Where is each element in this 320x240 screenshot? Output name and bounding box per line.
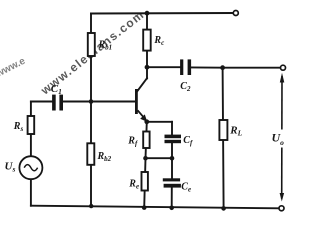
wire top rail bbox=[91, 12, 233, 15]
capacitor Cf plates bbox=[165, 135, 182, 144]
svg-text:Rs: Rs bbox=[13, 121, 24, 133]
label Uo background bbox=[271, 130, 285, 148]
capacitor C1 plates bbox=[52, 95, 63, 111]
svg-text:C2: C2 bbox=[180, 81, 191, 93]
wire Cf top lead bbox=[171, 122, 173, 135]
resistor Rb2 bbox=[87, 143, 94, 165]
resistor RL bbox=[219, 120, 227, 140]
wire base horizontal bbox=[64, 101, 136, 103]
wire mid junction horizontal bbox=[146, 157, 173, 159]
svg-text:Re: Re bbox=[128, 179, 139, 191]
wire left vertical bottom bbox=[30, 179, 32, 206]
wire bottom rail bbox=[31, 206, 279, 209]
terminal top right bbox=[233, 11, 238, 16]
wire emitter branch Rf bbox=[146, 122, 147, 158]
transistor V base bar bbox=[135, 89, 138, 114]
resistor Rs bbox=[28, 116, 35, 134]
wire collector vertical bbox=[146, 13, 148, 78]
wire left vertical top bbox=[30, 102, 32, 157]
capacitor Ce plates bbox=[163, 178, 181, 187]
terminal output bottom bbox=[279, 206, 284, 211]
resistor Rf bbox=[143, 132, 149, 149]
wire RL node to output terminal bbox=[223, 67, 281, 69]
svg-text:Rf: Rf bbox=[127, 136, 138, 148]
voltage arrow line U bbox=[281, 76, 283, 199]
wire Ce bottom lead bbox=[171, 188, 173, 208]
svg-text:Rb2: Rb2 bbox=[97, 151, 112, 163]
wire emitter node right bbox=[147, 121, 172, 123]
wire RL branch vertical bbox=[223, 68, 224, 209]
capacitor C2 plates bbox=[180, 59, 191, 75]
wire C2 to RL node bbox=[191, 66, 222, 68]
svg-text:Us: Us bbox=[5, 161, 16, 174]
wire Rb branch vertical bbox=[90, 14, 92, 207]
resistor Rc bbox=[143, 30, 151, 51]
resistor Re bbox=[142, 172, 148, 191]
svg-text:Cf: Cf bbox=[183, 135, 193, 147]
svg-text:RL: RL bbox=[229, 125, 242, 138]
wire collector node to C2 bbox=[147, 66, 180, 68]
wire collector diagonal bbox=[137, 78, 147, 91]
source sine wave bbox=[24, 165, 37, 171]
wire Ce top lead bbox=[171, 158, 173, 178]
terminal output top bbox=[281, 65, 286, 70]
svg-text:www.e: www.e bbox=[0, 55, 28, 80]
voltage arrow head up bbox=[280, 73, 285, 83]
resistor Rb1 bbox=[88, 33, 95, 56]
wire Rf to Re to rail bbox=[144, 158, 145, 208]
transistor emitter diagonal with arrow bbox=[138, 110, 148, 122]
wire Cf bottom lead bbox=[171, 143, 173, 158]
voltage arrow head down bbox=[280, 193, 285, 202]
source Us circle bbox=[19, 156, 42, 179]
svg-text:Rc: Rc bbox=[153, 35, 164, 47]
wire C1 left bbox=[31, 101, 52, 103]
svg-text:Ce: Ce bbox=[181, 182, 191, 194]
